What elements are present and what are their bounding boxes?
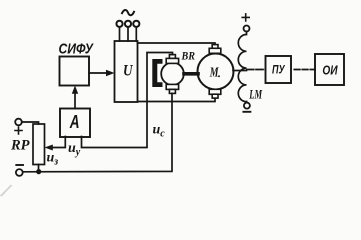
converter U box (115, 41, 138, 102)
block PU box (266, 56, 292, 83)
M bottom brush (209, 89, 221, 98)
wire SIFU to U (89, 72, 108, 74)
junction dot (36, 169, 41, 174)
svg-text:BR: BR (181, 49, 195, 63)
scan artifact bottom-left (0, 185, 12, 197)
pot bottom lead (38, 165, 40, 172)
dashed shaft line coil to PU (247, 69, 266, 71)
wire A to SIFU (74, 92, 76, 109)
wire motor to coil (233, 70, 247, 72)
svg-text:LМ: LМ (249, 87, 263, 101)
plus sign (15, 127, 22, 134)
wire terminal3 to U (135, 27, 137, 41)
wire U to motor bottom (armature) (138, 98, 216, 102)
wiper wire to A left pin (50, 137, 65, 148)
wire terminal2 to U (127, 27, 129, 41)
arrowhead A to SIFU (72, 86, 78, 94)
M top brush (209, 45, 221, 54)
ac terminal 2 (125, 21, 131, 27)
field winding top terminal (244, 26, 250, 32)
svg-text:ОИ: ОИ (322, 64, 338, 78)
potentiometer RP body (33, 124, 45, 165)
svg-text:А: А (69, 112, 80, 132)
wire plus terminal to pot top (22, 122, 39, 124)
shaft BR to M (184, 72, 198, 76)
minus sign bottom (243, 111, 250, 113)
BR top brush (166, 55, 178, 64)
potentiometer RP minus terminal (16, 169, 23, 176)
potentiometer RP plus terminal (15, 119, 22, 126)
ac terminal 1 (116, 21, 122, 27)
BR bottom wire to common rail (23, 93, 172, 171)
wire U to motor top (138, 43, 216, 45)
ac tilde symbol (122, 10, 134, 15)
motor M circle (198, 54, 234, 90)
svg-text:М: М (209, 65, 219, 80)
wire coil to bottom terminal (246, 102, 248, 103)
minus sign (16, 164, 23, 166)
block OI box (315, 54, 344, 85)
BR stator magnet bracket (152, 59, 162, 87)
field winding bottom terminal (244, 103, 250, 109)
tachogenerator BR circle (161, 63, 184, 86)
uc feedback wire (BR top to A right pin) (82, 53, 173, 148)
wire terminal1 to U (119, 27, 121, 41)
wiper arrowhead (45, 145, 53, 151)
field winding plus sign (242, 14, 249, 21)
amplifier A box (60, 109, 90, 138)
svg-text:U: U (123, 62, 133, 79)
ac terminal 3 (133, 21, 139, 27)
block SIFU box (60, 57, 90, 86)
dashed shaft line PU to OI (294, 69, 315, 71)
svg-text:ПУ: ПУ (272, 65, 286, 77)
arrowhead SIFU to U (106, 70, 115, 77)
speck after M (218, 75, 220, 77)
inductor LM coil (238, 32, 246, 103)
BR bottom brush (166, 84, 178, 93)
svg-text:RP: RP (10, 137, 30, 153)
svg-text:СИФУ: СИФУ (59, 40, 95, 57)
